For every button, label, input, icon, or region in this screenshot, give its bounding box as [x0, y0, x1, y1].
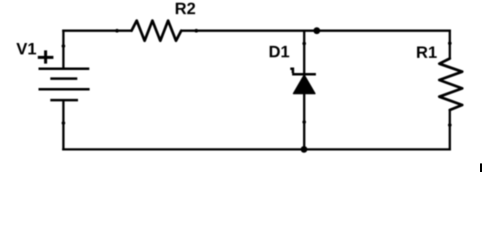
- pin dot R2 right: [195, 29, 199, 33]
- pin dot R2 left: [115, 29, 119, 33]
- label D1: [270, 46, 290, 57]
- pin dot R1 bottom: [448, 123, 452, 127]
- label R1: [417, 47, 437, 58]
- battery V1 plate 2 (short): [50, 77, 77, 80]
- label R2: [176, 3, 195, 15]
- node bottom junction dot: [301, 146, 308, 153]
- wire diode branch lower: [303, 93, 305, 151]
- battery V1 plate 1 (long, +): [39, 67, 90, 70]
- wire top-right horizontal segment: [181, 30, 451, 32]
- pin dot battery bottom: [62, 121, 66, 125]
- pin dot R1 top: [448, 42, 452, 46]
- node top junction dot: [313, 27, 320, 34]
- battery plus sign: [38, 50, 54, 63]
- resistor R2: [132, 21, 182, 41]
- pin dot D1 top: [302, 42, 306, 46]
- battery V1 plate 3 (long): [39, 88, 90, 91]
- pin dot battery top: [62, 44, 66, 48]
- cursor artifact bottom-right edge: [480, 163, 482, 172]
- diode D1 triangle: [293, 75, 315, 94]
- wire left vertical lower: [62, 100, 64, 150]
- wire right vertical lower: [449, 110, 451, 151]
- wire bottom horizontal: [62, 148, 451, 150]
- wire left vertical upper: [62, 30, 64, 68]
- wire diode branch upper: [303, 30, 305, 74]
- resistor R1: [439, 59, 462, 111]
- wire top-left horizontal segment: [62, 30, 131, 32]
- label V1: [16, 43, 36, 54]
- diode D1 cathode bar with zener tick: [290, 69, 316, 74]
- pin dot D1 bottom: [302, 120, 306, 124]
- battery V1 plate 4 (short): [50, 99, 78, 102]
- wire right vertical upper: [449, 30, 451, 59]
